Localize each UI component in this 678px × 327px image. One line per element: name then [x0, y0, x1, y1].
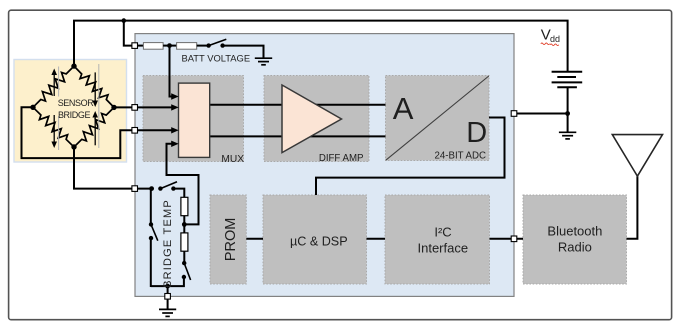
wire: divider tap down to MUX input 1	[170, 46, 173, 97]
terminal: bridge + output	[132, 105, 138, 111]
wire: uC & DSP to I2C	[367, 238, 386, 240]
svg-text:BRIDGE TEMP: BRIDGE TEMP	[162, 199, 174, 288]
terminal: chip ground	[165, 294, 171, 300]
wire: junction down to ground terminal	[167, 286, 169, 299]
arrow through R2 (down)	[92, 72, 98, 107]
svg-text:24-BIT ADC: 24-BIT ADC	[434, 150, 486, 161]
Bluetooth Radio block	[523, 195, 627, 284]
wire between divider resistors	[163, 45, 177, 47]
resistor R6 (batt divider 2)	[177, 43, 197, 50]
wire: battery divider chain	[135, 45, 144, 47]
wire: bridge left node around bottom to MUX input 3	[22, 107, 173, 158]
antenna	[612, 135, 662, 177]
node: bridge left	[30, 105, 35, 110]
wire: switch to ground	[223, 46, 264, 58]
battery B1	[552, 72, 583, 88]
switch SW1 (batt voltage)	[206, 39, 226, 48]
switch SW2 (bridge temp top)	[158, 182, 177, 191]
svg-text:I²C: I²C	[434, 225, 451, 240]
wire: bridge right node to MUX input 2	[114, 106, 172, 108]
ground (batt voltage)	[255, 58, 272, 65]
PROM block	[210, 195, 246, 284]
svg-text:Radio: Radio	[558, 239, 592, 254]
wire: MUX output top to ADC input A (under diff amp)	[210, 104, 386, 106]
variable-resistor gray line R2	[98, 64, 100, 116]
wire: R8 down to switch SW3	[183, 251, 185, 263]
wire: I2C to Bluetooth Radio	[490, 238, 524, 240]
MUX block (peach rectangle)	[179, 83, 210, 157]
sensor bridge resistor R3 (bottom-left zigzag)	[33, 107, 74, 147]
svg-text:A: A	[393, 91, 414, 126]
svg-text:D: D	[466, 117, 487, 149]
svg-text:Interface: Interface	[418, 240, 469, 255]
MUX container box	[143, 76, 244, 162]
ADC diagonal divider	[386, 76, 489, 160]
chip body (blue box)	[135, 34, 514, 297]
resistor R5 (batt divider 1)	[143, 43, 163, 50]
wire: temp tap to MUX input 4	[167, 144, 199, 225]
arrowhead MUX input 2	[171, 104, 179, 110]
junction on top rail	[122, 18, 127, 23]
wire: SW3 down to bottom rail	[151, 277, 184, 286]
sensor bridge resistor R4 (bottom-right zigzag)	[74, 107, 114, 147]
arrowhead MUX input 3	[171, 127, 179, 133]
arrowhead MUX input 4	[171, 141, 179, 147]
wire: PROM to uC & DSP	[246, 238, 263, 240]
resistor R8 (bridge temp lower)	[181, 233, 188, 251]
DIFF AMP container box	[264, 76, 369, 162]
node: battery bottom junction	[565, 111, 570, 116]
wire: ADC output to uC & DSP	[316, 118, 505, 196]
svg-text:µC & DSP: µC & DSP	[290, 234, 348, 248]
svg-text:DIFF AMP: DIFF AMP	[319, 153, 364, 164]
svg-text:MUX: MUX	[221, 154, 244, 165]
variable-resistor gray line R1	[58, 67, 60, 97]
I2C Interface block	[385, 195, 490, 284]
ground (battery)	[559, 132, 576, 139]
terminal: I2C out	[511, 236, 517, 242]
wire: R7 to R8 with tap node	[183, 216, 185, 233]
arrow through R1 (up)	[51, 69, 57, 97]
arrow through R4 (up)	[92, 111, 98, 145]
arrowhead MUX input 1	[171, 93, 179, 99]
op-amp DIFF AMP triangle	[282, 85, 342, 153]
sensor bridge body (yellow box)	[14, 60, 127, 163]
svg-text:SENSOR: SENSOR	[58, 98, 95, 108]
wire: MUX output bottom to ADC input B (under diff amp)	[210, 135, 386, 137]
node: bottom rail junction	[165, 284, 170, 289]
wire: switch SW2 to resistor R7	[173, 189, 184, 198]
terminal: batt divider input	[132, 43, 138, 49]
variable-resistor gray line R4	[98, 110, 100, 148]
resistor R7 (bridge temp upper)	[181, 197, 188, 215]
terminal: bridge temp input	[132, 186, 138, 192]
arrow through R3 (down)	[51, 115, 57, 148]
svg-text:BATT VOLTAGE: BATT VOLTAGE	[182, 52, 251, 63]
wire: battery to ground/chip	[567, 87, 569, 131]
node: temp divider tap	[182, 222, 187, 227]
node: bridge top	[71, 63, 76, 68]
variable-resistor gray line R3	[58, 116, 60, 150]
svg-text:dd: dd	[550, 34, 560, 44]
wire: top supply rail	[74, 21, 568, 72]
svg-text:Bluetooth: Bluetooth	[547, 224, 602, 239]
switch SW3 (bridge temp bottom)	[182, 261, 191, 280]
switch SW4 (bridge temp left branch)	[149, 222, 158, 241]
terminal: Vdd	[511, 111, 517, 117]
Vdd label	[541, 27, 560, 46]
ground (bridge temp, below chip)	[159, 299, 176, 316]
sensor bridge resistor R1 (top-left zigzag)	[33, 66, 74, 107]
wire: bridge temp junction to right branch switch	[149, 186, 154, 191]
24-BIT ADC block	[386, 76, 490, 161]
wire: bridge bottom node down to bridge-temp terminal	[74, 147, 152, 189]
uC & DSP block	[263, 195, 367, 284]
left branch: wire down from junction	[150, 189, 152, 225]
wire: top rail tap down to battery-divider terminal	[124, 21, 135, 46]
terminal: bridge - output	[132, 128, 138, 134]
sensor bridge resistor R2 (top-right zigzag)	[74, 66, 114, 107]
wire: junction to Vdd terminal on chip	[514, 113, 568, 115]
svg-text:PROM: PROM	[223, 218, 239, 262]
wire: SW4 down to bottom rail	[150, 238, 152, 287]
wire: resistor R6 to switch	[197, 45, 209, 47]
node: bridge bottom	[71, 144, 76, 149]
svg-text:BRIDGE: BRIDGE	[58, 110, 91, 120]
wire: Bluetooth Radio to antenna	[627, 176, 638, 239]
node: bridge right	[111, 105, 116, 110]
node: divider tap	[167, 43, 172, 48]
